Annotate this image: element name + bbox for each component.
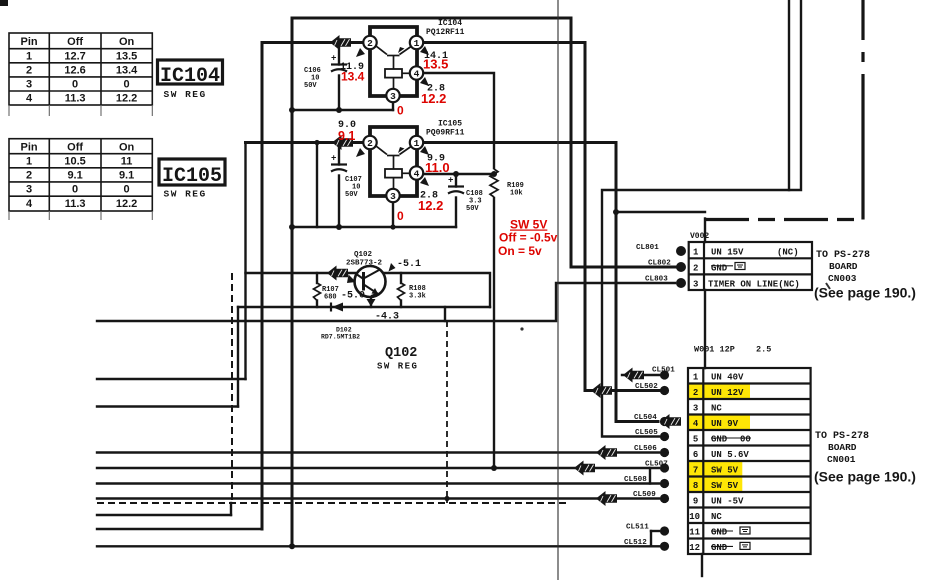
svg-text:3.3k: 3.3k — [409, 293, 426, 301]
svg-text:Off: Off — [67, 36, 83, 48]
svg-text:CL511: CL511 — [626, 524, 649, 532]
svg-text:On: On — [119, 36, 135, 48]
svg-text:3: 3 — [26, 79, 32, 91]
svg-text:CL505: CL505 — [635, 429, 658, 437]
svg-text:3: 3 — [693, 280, 698, 290]
svg-text:50V: 50V — [345, 191, 358, 199]
svg-text:1: 1 — [26, 155, 32, 167]
svg-text:D102: D102 — [336, 327, 352, 334]
svg-text:0: 0 — [124, 79, 130, 91]
svg-text:-5.0: -5.0 — [341, 291, 365, 302]
svg-text:NC: NC — [711, 512, 722, 522]
svg-text:1: 1 — [693, 372, 699, 382]
svg-text:10: 10 — [689, 512, 700, 522]
svg-text:12.2: 12.2 — [116, 198, 137, 210]
svg-text:00: 00 — [740, 434, 751, 444]
svg-text:On = 5v: On = 5v — [498, 244, 542, 258]
svg-text:W001 12P: W001 12P — [694, 345, 735, 355]
svg-text:SW REG: SW REG — [164, 189, 207, 200]
svg-text:680: 680 — [324, 294, 337, 302]
svg-text:On: On — [119, 142, 135, 154]
svg-text:Q102: Q102 — [354, 251, 373, 259]
svg-text:GND: GND — [711, 543, 728, 553]
svg-text:0: 0 — [72, 79, 78, 91]
svg-text:SW 5V: SW 5V — [711, 465, 739, 475]
svg-text:Off = -0.5v: Off = -0.5v — [499, 231, 558, 245]
svg-text:(See page 190.): (See page 190.) — [814, 469, 916, 485]
svg-text:NC: NC — [711, 403, 722, 413]
svg-text:UN 9V: UN 9V — [711, 419, 739, 429]
svg-text:SW 5V: SW 5V — [510, 218, 547, 232]
svg-text:13.4: 13.4 — [116, 64, 138, 76]
svg-text:12.6: 12.6 — [64, 64, 85, 76]
svg-text:UN -5V: UN -5V — [711, 496, 744, 506]
svg-text:IC104: IC104 — [438, 19, 462, 28]
svg-text:2: 2 — [26, 169, 32, 181]
svg-text:2: 2 — [26, 64, 32, 76]
svg-text:5: 5 — [693, 434, 698, 444]
svg-text:10.5: 10.5 — [64, 155, 85, 167]
svg-text:CL803: CL803 — [645, 276, 668, 284]
svg-text:2SB773-2: 2SB773-2 — [346, 260, 383, 268]
svg-text:CL504: CL504 — [634, 414, 657, 422]
svg-text:1: 1 — [693, 248, 699, 258]
svg-text:10k: 10k — [510, 190, 523, 198]
svg-text:CL801: CL801 — [636, 244, 659, 252]
svg-text:UN 12V: UN 12V — [711, 388, 744, 398]
svg-text:GND: GND — [711, 527, 728, 537]
svg-text:SW REG: SW REG — [377, 362, 418, 372]
svg-text:Pin: Pin — [21, 142, 38, 154]
svg-text:CL508: CL508 — [624, 476, 647, 484]
svg-text:50V: 50V — [304, 82, 317, 90]
svg-text:TO PS-278: TO PS-278 — [816, 250, 870, 261]
svg-text:UN 15V: UN 15V — [711, 248, 744, 258]
svg-text:CN001: CN001 — [827, 454, 856, 465]
svg-text:PQ12RF11: PQ12RF11 — [426, 28, 465, 37]
svg-text:13.5: 13.5 — [116, 50, 137, 62]
svg-text:2: 2 — [693, 264, 698, 274]
svg-text:RD7.5MT1B2: RD7.5MT1B2 — [321, 334, 360, 341]
svg-text:SW REG: SW REG — [164, 89, 207, 100]
svg-text:CL802: CL802 — [648, 260, 671, 268]
svg-text:11.3: 11.3 — [65, 93, 86, 105]
svg-text:12.2: 12.2 — [116, 93, 137, 105]
svg-text:GND: GND — [711, 264, 728, 274]
svg-text:12.7: 12.7 — [64, 50, 85, 62]
svg-text:50V: 50V — [466, 205, 479, 213]
svg-text:1: 1 — [26, 50, 32, 62]
svg-text:Q102: Q102 — [385, 346, 417, 361]
svg-text:IC104: IC104 — [160, 65, 220, 88]
svg-text:CL502: CL502 — [635, 383, 658, 391]
svg-text:2.5: 2.5 — [756, 345, 771, 355]
svg-text:TO PS-278: TO PS-278 — [815, 431, 869, 442]
svg-text:CL507: CL507 — [645, 461, 668, 469]
svg-text:SW 5V: SW 5V — [711, 481, 739, 491]
svg-text:3: 3 — [26, 184, 32, 196]
svg-text:IC105: IC105 — [162, 165, 222, 188]
svg-text:0: 0 — [124, 184, 130, 196]
svg-text:UN 5.6V: UN 5.6V — [711, 450, 749, 460]
svg-text:V002: V002 — [690, 232, 709, 241]
svg-text:BOARD: BOARD — [828, 442, 857, 453]
svg-text:7: 7 — [693, 465, 698, 475]
svg-text:IC105: IC105 — [438, 120, 462, 129]
svg-text:-4.3: -4.3 — [375, 312, 399, 323]
svg-text:TIMER ON LINE(NC): TIMER ON LINE(NC) — [708, 280, 800, 290]
svg-text:CL512: CL512 — [624, 539, 647, 547]
svg-text:CN003: CN003 — [828, 273, 857, 284]
svg-text:CL506: CL506 — [634, 445, 657, 453]
svg-text:CL501: CL501 — [652, 367, 675, 375]
svg-text:Off: Off — [67, 142, 83, 154]
svg-text:-5.1: -5.1 — [397, 259, 421, 270]
svg-text:UN 40V: UN 40V — [711, 372, 744, 382]
svg-text:11: 11 — [689, 527, 700, 537]
svg-text:9.1: 9.1 — [338, 129, 355, 143]
svg-text:9: 9 — [693, 496, 698, 506]
svg-text:4: 4 — [693, 419, 699, 429]
svg-text:11.3: 11.3 — [65, 198, 86, 210]
svg-text:2: 2 — [693, 388, 698, 398]
svg-text:4: 4 — [26, 93, 33, 105]
svg-text:0: 0 — [397, 104, 404, 118]
svg-text:(See page 190.): (See page 190.) — [814, 285, 916, 301]
svg-text:12.2: 12.2 — [418, 198, 443, 213]
svg-text:BOARD: BOARD — [829, 261, 858, 272]
svg-text:9.1: 9.1 — [67, 169, 82, 181]
svg-text:13.4: 13.4 — [341, 70, 365, 84]
svg-text:9.1: 9.1 — [119, 169, 134, 181]
svg-text:13.5: 13.5 — [423, 57, 448, 72]
svg-text:4: 4 — [26, 198, 33, 210]
svg-text:(NC): (NC) — [777, 248, 799, 258]
svg-text:3: 3 — [693, 403, 698, 413]
svg-text:12: 12 — [689, 543, 700, 553]
svg-text:0: 0 — [72, 184, 78, 196]
svg-text:8: 8 — [693, 481, 698, 491]
svg-text:12.2: 12.2 — [421, 91, 446, 106]
svg-text:Pin: Pin — [21, 36, 38, 48]
svg-text:6: 6 — [693, 450, 698, 460]
svg-text:11: 11 — [121, 155, 133, 167]
svg-text:11.0: 11.0 — [425, 160, 450, 175]
svg-text:CL509: CL509 — [633, 491, 656, 499]
svg-text:PQ09RF11: PQ09RF11 — [426, 129, 465, 138]
svg-text:0: 0 — [397, 209, 404, 223]
svg-text:GND: GND — [711, 434, 728, 444]
